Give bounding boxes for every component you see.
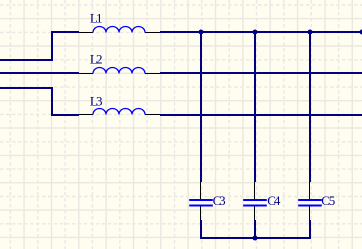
junction node A (L1/C3 tap)	[199, 30, 204, 35]
junction node C (L1/C5 tap)	[308, 30, 313, 35]
inductor L2	[93, 68, 145, 74]
capacitor C4 pin 1	[254, 182, 256, 199]
wire net3 right (L3 output row)	[160, 114, 362, 116]
label C3	[213, 193, 226, 208]
wire bottom rail	[200, 237, 311, 239]
label C4	[267, 193, 281, 208]
wire vertical branch to C4	[254, 32, 256, 182]
label L2	[90, 51, 103, 66]
inductor L1	[93, 27, 145, 33]
wire net3 left (input to L3)	[0, 88, 79, 115]
wire net2 left (input to L2)	[0, 72, 79, 74]
inductor L1 pin 2	[145, 32, 160, 34]
capacitor C3	[189, 200, 213, 206]
svg-text:L3: L3	[90, 93, 103, 108]
capacitor C5 pin 2	[309, 207, 311, 221]
inductor L3 pin 1	[79, 114, 93, 116]
inductor L3	[93, 109, 145, 115]
wire C4 lower lead	[254, 220, 256, 239]
wire net1 left (input to L1)	[0, 32, 79, 60]
junction node E (net1 right edge)	[360, 30, 362, 35]
capacitor C5 pin 1	[309, 182, 311, 199]
svg-text:C5: C5	[321, 193, 335, 208]
label L1	[90, 11, 103, 26]
capacitor C5	[298, 200, 322, 206]
capacitor C4	[243, 200, 267, 206]
junction node D (C4 to bottom rail)	[253, 236, 258, 241]
wire C5 lower lead	[309, 220, 311, 239]
label L3	[90, 93, 103, 108]
inductor L2 pin 2	[145, 73, 160, 75]
wire net2 right (L2 output row)	[160, 72, 362, 74]
wire vertical branch to C3	[200, 32, 202, 182]
svg-text:L2: L2	[90, 51, 103, 66]
svg-text:C4: C4	[267, 193, 281, 208]
inductor L1 pin 1	[79, 32, 93, 34]
wire C3 lower lead	[200, 220, 202, 239]
label C5	[321, 193, 335, 208]
svg-text:L1: L1	[90, 11, 103, 26]
capacitor C4 pin 2	[254, 207, 256, 221]
wire net1 right (L1 output bus row)	[160, 31, 362, 33]
wire vertical branch to C5	[309, 32, 311, 182]
capacitor C3 pin 1	[200, 182, 202, 199]
inductor L3 pin 2	[145, 114, 160, 116]
capacitor C3 pin 2	[200, 207, 202, 221]
svg-text:C3: C3	[213, 193, 226, 208]
inductor L2 pin 1	[79, 73, 93, 75]
junction node B (L1/C4 tap)	[253, 30, 258, 35]
